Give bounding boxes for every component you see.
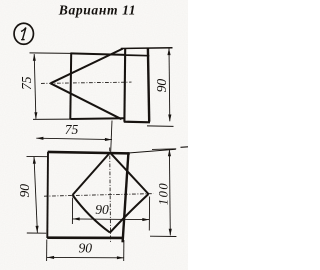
dim 75 horizontal: left arrow: [36, 137, 43, 140]
dim 90 left: bottom extension: [27, 232, 46, 234]
dim 75 left: bottom arrow: [34, 112, 37, 119]
outer square top edge extension (thin, to 100 dim): [130, 149, 176, 153]
svg-text:75: 75: [19, 76, 34, 90]
svg-text:90: 90: [154, 79, 169, 93]
dim 90 inner: left extension: [71, 198, 73, 225]
circled 1: circle: [14, 23, 33, 44]
dim 75 horizontal: line: [36, 138, 112, 139]
plate right edge: [148, 48, 149, 121]
dim 100 right: line: [168, 149, 171, 235]
dim 90 inner: right extension: [148, 197, 150, 231]
outer square left edge: [46, 152, 49, 238]
dim 90 left: top extension: [27, 155, 48, 157]
dim 90 bottom: right extension: [123, 240, 125, 261]
square S1 top edge (thick): [71, 53, 126, 55]
outer square top edge (thick): [48, 152, 130, 154]
circled 1: digit: [21, 28, 26, 40]
plate top edge + extension to 90 dim: [121, 47, 173, 50]
dim 100 right: bottom arrow: [169, 229, 172, 236]
dim 75 left: top arrow: [33, 54, 36, 61]
diamond edge bottom-right: [110, 194, 149, 233]
dim 75 horizontal: right arrow: [105, 138, 112, 141]
dim 75 horizontal: right extension: [111, 121, 112, 153]
vertical centerline (dash-dot): [109, 148, 112, 244]
square top edge extension (thin, to dim line): [30, 52, 72, 55]
triangle upper edge (wedge): [51, 49, 123, 84]
dim 90 left: top arrow: [33, 157, 36, 164]
svg-text:90: 90: [95, 202, 109, 217]
stray mark top-right of bottom view: [181, 146, 189, 149]
dim 100 right: top arrow: [168, 149, 171, 156]
dim 90 left: bottom arrow: [36, 226, 39, 233]
dim 90 right: bottom arrow: [168, 115, 171, 122]
square S1 bottom edge (thick): [71, 117, 125, 120]
plate left edge: [123, 48, 126, 121]
square S1 left edge: [69, 53, 72, 120]
dim 90 inner: line: [73, 218, 150, 221]
paper texture: [0, 0, 188, 270]
bottom extension line to 90 dim: [147, 125, 174, 128]
square S1 bottom edge extension (thin, to dim line): [33, 118, 71, 120]
dim 90 bottom: right arrow: [117, 256, 124, 259]
diamond edge top-right: [110, 153, 149, 194]
svg-text:90: 90: [79, 241, 93, 256]
dim 90 left: line: [34, 157, 37, 233]
dim 100 right: top extension: [152, 148, 176, 151]
dim 90 bottom: left extension: [46, 240, 48, 262]
dim 90 bottom: left arrow: [47, 256, 54, 259]
centerline (dash-dot) of front view: [41, 82, 132, 83]
dim 90 right: top arrow: [167, 48, 170, 55]
svg-text:100: 100: [157, 182, 171, 206]
dim 100 right: bottom extension: [150, 235, 176, 237]
svg-text:Вариант 11: Вариант 11: [58, 2, 136, 17]
diamond edge bottom-left: [73, 195, 111, 233]
svg-text:75: 75: [65, 122, 79, 137]
outer square right edge (thick): [123, 153, 129, 242]
dim 90 inner: left arrow: [73, 217, 80, 220]
dim 90 bottom: line: [47, 256, 124, 258]
plate bottom edge (thick): [124, 121, 150, 124]
square S1 top edge inside right plate: [126, 54, 150, 57]
dim 90 inner: right arrow: [142, 218, 149, 221]
dim 75 (left, vertical): line: [34, 54, 36, 119]
horizontal centerline (dash-dot): [44, 194, 154, 197]
svg-text:90: 90: [17, 184, 32, 198]
dim 90 (right of front view): line: [168, 48, 171, 121]
outer square bottom edge (thick): [47, 236, 124, 239]
diamond edge top-left: [73, 153, 111, 195]
triangle lower edge (wedge): [51, 83, 122, 119]
